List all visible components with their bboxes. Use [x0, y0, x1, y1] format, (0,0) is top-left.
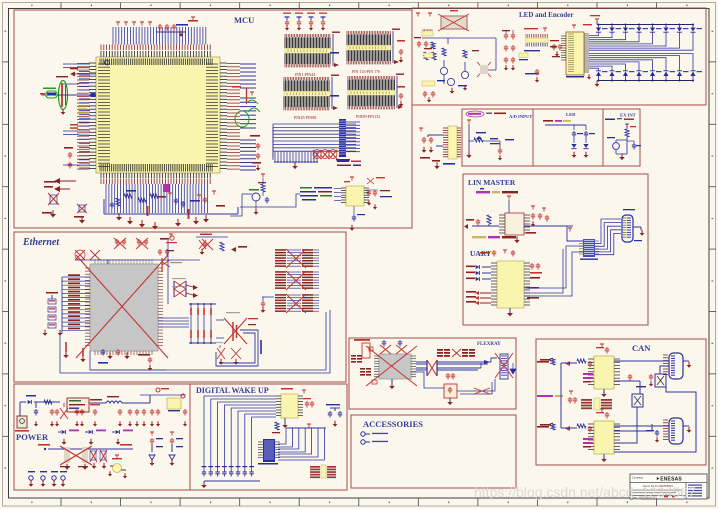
transistor Q10 [108, 455, 127, 478]
connector PIN133-PIN176 [347, 29, 400, 75]
left yellow labels [70, 105, 90, 129]
CAN left labels [537, 361, 577, 428]
inductor L1 [89, 396, 150, 403]
FLEXRAY title [477, 342, 501, 347]
ethernet cap lattice [189, 303, 216, 344]
connector PIN45-PIN88 [284, 75, 339, 121]
MCU U1 pin names right [206, 64, 218, 166]
reverse protection diodes [149, 432, 183, 466]
encoder transistors Q1 Q2 [422, 38, 496, 102]
RMII stub cap [261, 297, 274, 313]
DB9 connector J-CAN1 [663, 353, 691, 379]
oscillator cell [40, 88, 57, 99]
MCU U1 pin-1 mark [105, 60, 110, 65]
CAN transceiver U8 [540, 344, 620, 397]
ethernet top right parts [166, 234, 228, 255]
wire MCU to ESD [240, 194, 300, 207]
svg-text:https://blog.csdn.net/abcd_123: https://blog.csdn.net/abcd_1234567 [474, 484, 696, 500]
regulator U11 [140, 388, 187, 426]
ethernet bottom grounds [60, 310, 330, 373]
flexray chip caps [374, 340, 416, 389]
CAN choke FL1 [655, 374, 666, 387]
supply select diodes [58, 430, 133, 445]
bus termination drops [274, 151, 318, 169]
input filter capacitors [20, 402, 160, 426]
CAN jumper table [581, 398, 612, 410]
wire fan to LED row 2 [589, 54, 693, 71]
svg-text:EX INT: EX INT [620, 113, 636, 118]
MCU U1 pins left [89, 63, 96, 169]
svg-text:POWER: POWER [16, 432, 49, 442]
wire bus PHY left [62, 274, 90, 334]
LED driver U4 [550, 24, 592, 78]
wire bus PHY right [158, 240, 189, 327]
LIN header labels 2 [472, 236, 516, 238]
crossed caps C60 C61 [215, 342, 241, 365]
power rail wire [38, 444, 133, 450]
LED box title [566, 112, 576, 117]
svg-text:Company: Company [632, 476, 644, 480]
potentiometer RV1 [466, 120, 514, 160]
Ethernet section box [14, 232, 346, 382]
MCU pin labels bottom [101, 179, 210, 184]
svg-text:A/D INPUT: A/D INPUT [509, 114, 532, 119]
svg-text:Ethernet: Ethernet [22, 237, 60, 248]
wire fan connector to rail [278, 424, 326, 460]
ethernet PHY U7 [85, 259, 163, 355]
UART title [470, 249, 491, 258]
wire fan chip to inputs [204, 396, 276, 470]
regulator U10 [67, 398, 102, 412]
MCU pin labels right [227, 64, 240, 170]
MCU U1 pin names bottom [100, 164, 212, 172]
right-side components of MCU [232, 86, 261, 171]
MCU section box [14, 10, 412, 228]
components below MCU [104, 184, 238, 230]
svg-text:LIN MASTER: LIN MASTER [468, 178, 516, 187]
ethernet wire loop [216, 330, 262, 366]
wire bus MCU top [113, 27, 206, 45]
MCU section title [234, 15, 254, 25]
MCU U1 pins right [220, 63, 227, 169]
svg-text:ACCESSORIES: ACCESSORIES [363, 419, 423, 429]
DB9 connector J-CAN2 [663, 418, 691, 444]
DC jack J-PWR [15, 416, 29, 432]
LED row D9-D16 [596, 71, 702, 82]
CAN wiring [561, 361, 696, 452]
title block text [632, 484, 702, 500]
svg-text:LED: LED [566, 112, 576, 117]
encoder mid capacitors [502, 30, 539, 82]
ethernet top filter parts [75, 234, 247, 264]
svg-text:MCU: MCU [234, 15, 254, 25]
connector J-AD and filter parts [419, 126, 461, 169]
DIGITAL WAKE UP section box [190, 384, 347, 490]
bus transformer T2 (X) [416, 358, 497, 376]
LED rail power [587, 15, 600, 87]
ESD protection U3 cluster [300, 161, 392, 231]
accessory items [361, 432, 388, 444]
RMII headers (not fitted) [275, 249, 319, 313]
pin header side components [330, 40, 405, 107]
CAN title [632, 343, 651, 353]
CAN caps [628, 374, 659, 442]
wire bus MCU left [63, 64, 90, 168]
wire bus MCU bottom [106, 184, 208, 213]
LIN-UART section box [463, 174, 648, 325]
ethernet transistor Q5 [162, 250, 182, 272]
Ethernet title [22, 237, 60, 248]
wake-up IC U12 [272, 388, 314, 433]
svg-text:CAN: CAN [632, 343, 651, 353]
unfitted resistor network [60, 446, 107, 470]
DIGITAL WAKE UP title [196, 386, 269, 395]
wire bus to debug connector [273, 124, 356, 160]
PHY not-fitted X [76, 255, 168, 358]
power flags above PIN1 header [283, 13, 327, 31]
LIN header labels [476, 188, 518, 193]
svg-text:PIN1-PIN44: PIN1-PIN44 [295, 72, 315, 77]
svg-text:FLEXRAY: FLEXRAY [477, 342, 501, 347]
svg-text:DIGITAL WAKE UP: DIGITAL WAKE UP [196, 386, 269, 395]
ethernet bowtie filters [172, 278, 198, 298]
rotary encoder S1 (not fitted) [414, 10, 469, 49]
flexray jumper headers [437, 349, 475, 357]
flexray termination (X) [411, 372, 495, 405]
signal bundle connector J5 [579, 239, 599, 260]
A/D INPUT title [466, 111, 532, 119]
push switch SW1 [607, 124, 641, 160]
LED and Encoder title [519, 11, 573, 19]
FLEXRAY section box [349, 338, 516, 409]
MCU U1 pins top [101, 51, 210, 57]
EX INT section box [603, 109, 640, 166]
svg-text:PIN 133-PIN 176: PIN 133-PIN 176 [352, 69, 380, 74]
connector PIN1-PIN44 [285, 32, 340, 78]
jumper table J13 [310, 465, 336, 478]
debug connector J1 [336, 119, 350, 161]
POWER title [16, 432, 49, 442]
wire harness UART-DB9 [524, 219, 621, 296]
CAN section box [536, 339, 706, 465]
wake RC filter [326, 404, 342, 427]
wire bus MCU right [240, 64, 256, 170]
flexray connector (X) [495, 353, 516, 379]
MCU U1 body [96, 57, 220, 173]
LED and Encoder section box [412, 8, 706, 105]
status LEDs D21 D22 [543, 120, 595, 158]
POWER section box [14, 384, 190, 490]
A/D INPUT section box [462, 109, 533, 166]
ferrite beads crossed [313, 150, 337, 160]
svg-text:⯈ENESAS: ⯈ENESAS [656, 477, 682, 483]
flexray X mark [366, 346, 417, 386]
input capacitors C40-C47 [201, 466, 260, 488]
crystal X2 (not fitted) [216, 312, 258, 344]
connector PIN89-PIN132 [348, 74, 404, 120]
LED row D1-D8 [596, 24, 702, 33]
left-side components of MCU [42, 147, 87, 224]
wire crystal to MCU [57, 68, 96, 97]
crystal Y1 [56, 76, 68, 115]
decoupling caps above MCU [116, 17, 198, 37]
wire fan to LED row 1 [589, 32, 693, 50]
MCU pin labels left [77, 64, 89, 170]
LED section box [533, 109, 603, 166]
test point connectors [28, 471, 67, 487]
svg-text:LED and Encoder: LED and Encoder [519, 11, 573, 19]
DB9 connector J-LIN [622, 209, 644, 242]
flexray headers [351, 339, 377, 384]
watermark [474, 484, 696, 500]
title block [630, 474, 707, 499]
ACCESSORIES section box [351, 415, 516, 488]
EX INT title [605, 113, 636, 121]
wake connector J12 [258, 439, 280, 465]
termination network RN1 [43, 292, 63, 336]
ACCESSORIES title [363, 419, 423, 429]
connector J-ENC [524, 28, 562, 56]
MCU U1 pin names top [100, 59, 212, 66]
svg-text:PIN45-PIN88: PIN45-PIN88 [294, 115, 316, 120]
flexray transceiver U13 [379, 354, 411, 379]
wires debug to right [346, 122, 360, 152]
LIN MASTER title [468, 178, 516, 187]
CAN transceiver U9 [540, 409, 620, 462]
MCU U1 pins bottom [101, 173, 210, 179]
input diode D30 [20, 395, 60, 404]
MCU U1 pin names left [98, 64, 110, 166]
UART transceiver U6 [466, 250, 542, 317]
svg-text:PIN89-PIN132: PIN89-PIN132 [356, 114, 380, 119]
MCU pin labels top [101, 45, 210, 51]
CAN choke FL2 [632, 394, 643, 407]
reset transistor Q3 [230, 174, 269, 216]
LIN transceiver U5 [464, 196, 573, 243]
Renesas logo [656, 477, 682, 483]
